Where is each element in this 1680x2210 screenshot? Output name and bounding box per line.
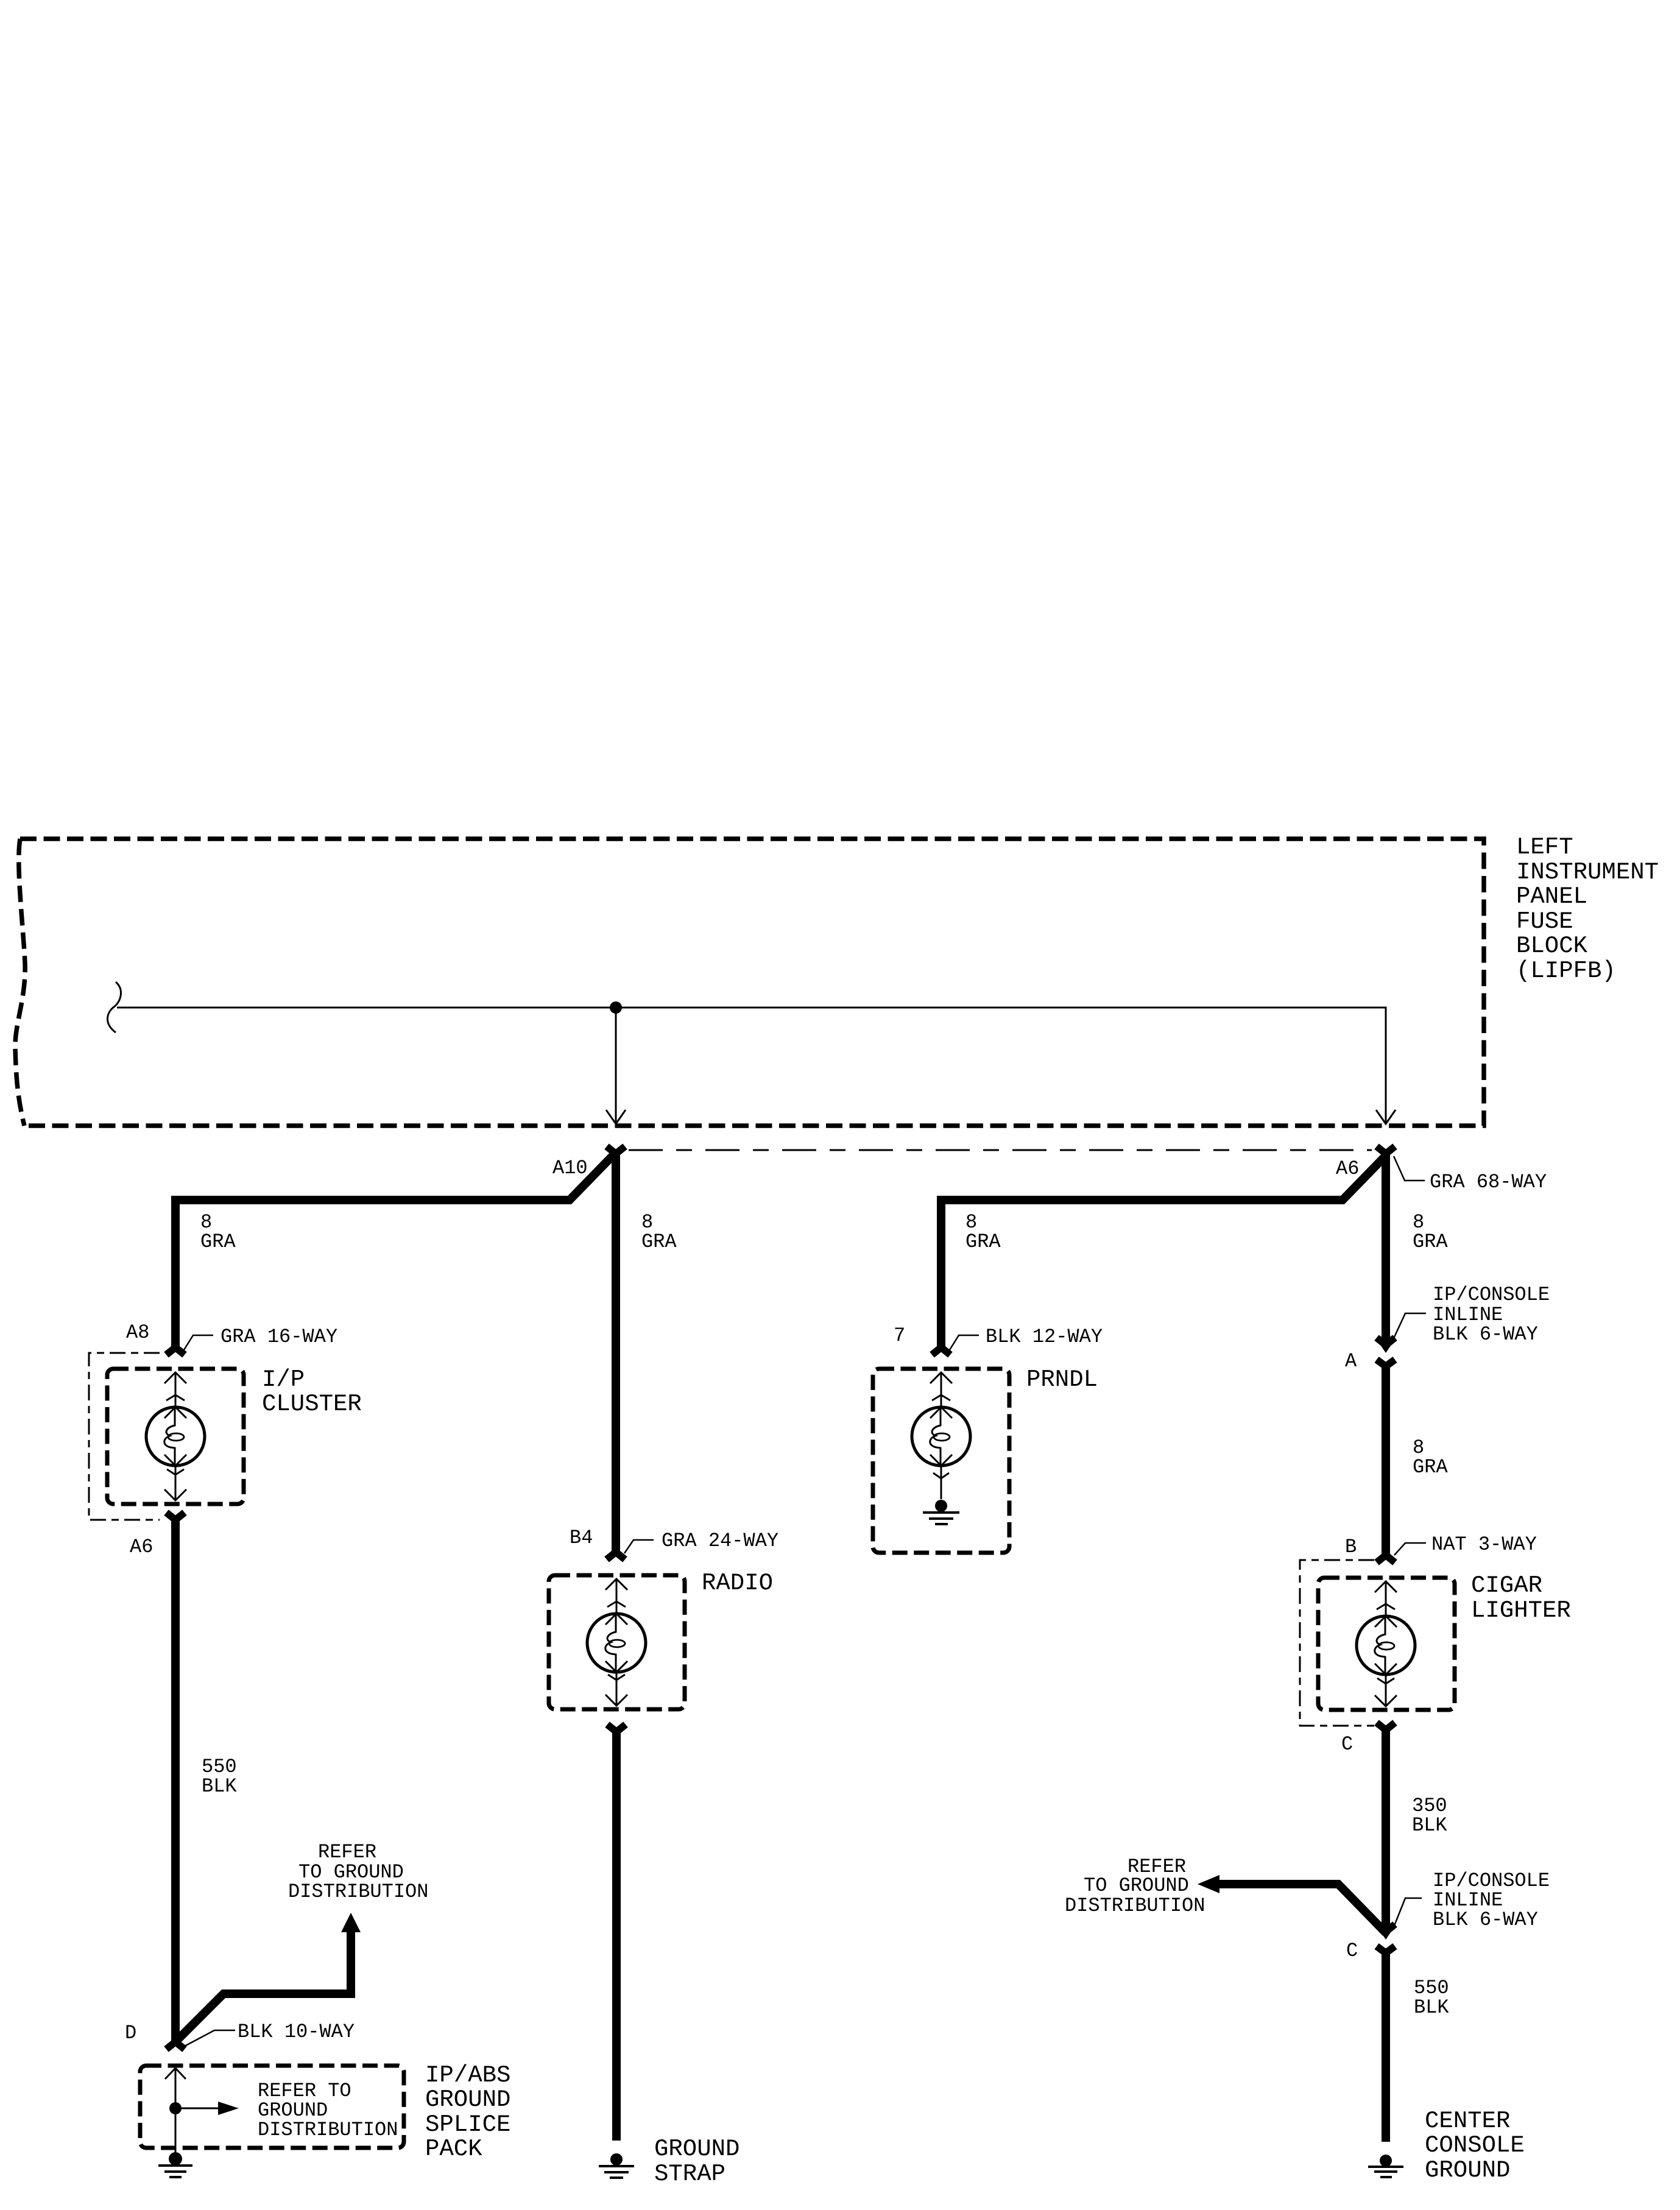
svg-text:REFER: REFER xyxy=(318,1841,376,1863)
label 8 GRA (A6) xyxy=(1413,1211,1448,1253)
svg-text:GRA 68-WAY: GRA 68-WAY xyxy=(1430,1171,1547,1193)
solid arrowhead up (left branch) xyxy=(341,1913,361,1932)
svg-text:PRNDL: PRNDL xyxy=(1026,1366,1098,1393)
leader B4 xyxy=(624,1540,654,1553)
svg-text:GRA 24-WAY: GRA 24-WAY xyxy=(662,1530,778,1552)
ground symbol CENTER CONSOLE GROUND xyxy=(1368,2155,1403,2177)
label GROUND STRAP xyxy=(654,2136,739,2187)
svg-text:IP/CONSOLE: IP/CONSOLE xyxy=(1433,1283,1550,1306)
wire radio to ground strap xyxy=(612,1731,621,2141)
svg-text:BLK 10-WAY: BLK 10-WAY xyxy=(238,2021,355,2043)
svg-text:GRA: GRA xyxy=(200,1230,236,1253)
svg-text:B4: B4 xyxy=(570,1527,593,1549)
lamp PRNDL with internal ground xyxy=(912,1372,970,1524)
leader A8 xyxy=(184,1335,213,1350)
component box RADIO xyxy=(549,1575,685,1709)
wire 8 GRA segment A to B xyxy=(1382,1366,1390,1555)
label 350 BLK xyxy=(1412,1795,1447,1837)
connector flare cigar bottom xyxy=(1377,1723,1395,1730)
svg-text:PACK: PACK xyxy=(425,2136,482,2162)
leader inline connector A xyxy=(1394,1313,1426,1338)
connector flare radio bottom xyxy=(607,1725,626,1732)
ground symbol GROUND STRAP xyxy=(599,2153,634,2178)
wire branch to ground distribution (left) xyxy=(175,1931,351,2042)
svg-text:A10: A10 xyxy=(552,1157,588,1179)
svg-text:B: B xyxy=(1345,1536,1357,1558)
svg-text:A8: A8 xyxy=(126,1321,149,1344)
svg-text:D: D xyxy=(125,2022,136,2044)
svg-text:CIGAR: CIGAR xyxy=(1471,1572,1542,1599)
leader 7 xyxy=(950,1335,979,1350)
splice pack internal arrow and line xyxy=(165,2068,239,2153)
connector flare A10 xyxy=(607,1146,625,1154)
label 8 GRA (I/P branch) xyxy=(200,1211,236,1253)
svg-text:GRA: GRA xyxy=(1413,1456,1448,1478)
wire 8 GRA to PRNDL xyxy=(941,1155,1386,1349)
label 550 BLK (right) xyxy=(1414,1977,1449,2019)
lamp radio xyxy=(587,1579,646,1706)
solid arrowhead inline connector C xyxy=(1377,1924,1395,1932)
label IP/CONSOLE INLINE BLK 6-WAY (upper) xyxy=(1433,1283,1550,1346)
svg-text:BLK 6-WAY: BLK 6-WAY xyxy=(1433,1908,1538,1931)
connector flare B4 xyxy=(607,1552,625,1559)
svg-text:(LIPFB): (LIPFB) xyxy=(1516,958,1616,984)
label IP/ABS GROUND SPLICE PACK xyxy=(425,2062,510,2162)
svg-text:SPLICE: SPLICE xyxy=(425,2111,510,2138)
wire 8 GRA from A10 to I/P cluster xyxy=(175,1154,614,1349)
connector flare B xyxy=(1377,1555,1395,1562)
svg-text:NAT 3-WAY: NAT 3-WAY xyxy=(1431,1533,1537,1556)
svg-text:GROUND: GROUND xyxy=(1425,2157,1510,2184)
svg-text:LEFT: LEFT xyxy=(1516,834,1573,861)
component box PRNDL xyxy=(873,1369,1009,1553)
svg-text:GRA 16-WAY: GRA 16-WAY xyxy=(221,1326,337,1348)
solid arrowhead left (right branch) xyxy=(1198,1875,1219,1893)
component box IP/ABS GROUND SPLICE PACK xyxy=(140,2066,404,2148)
svg-text:7: 7 xyxy=(894,1324,905,1347)
label 8 GRA (A-B) xyxy=(1413,1436,1448,1478)
leader D xyxy=(185,2030,235,2046)
leader inline connector C xyxy=(1393,1898,1422,1929)
svg-text:CENTER: CENTER xyxy=(1425,2108,1510,2134)
wire tap drop to A10 xyxy=(615,1008,617,1123)
leader NAT 3-WAY xyxy=(1394,1543,1426,1555)
wire 550 BLK from I/P cluster xyxy=(171,1519,180,2042)
svg-text:C: C xyxy=(1346,1940,1358,1962)
label REFER TO GROUND DISTRIBUTION (in splice box) xyxy=(258,2080,398,2141)
component box CIGAR LIGHTER xyxy=(1318,1578,1455,1710)
svg-text:A6: A6 xyxy=(1336,1157,1359,1180)
svg-text:A6: A6 xyxy=(130,1536,153,1558)
svg-text:DISTRIBUTION: DISTRIBUTION xyxy=(258,2119,398,2141)
label IP/CONSOLE INLINE BLK 6-WAY (lower) xyxy=(1433,1869,1550,1931)
svg-text:CLUSTER: CLUSTER xyxy=(262,1391,362,1417)
connector flare D xyxy=(166,2042,185,2049)
svg-text:PANEL: PANEL xyxy=(1516,883,1587,910)
svg-text:GRA: GRA xyxy=(1413,1230,1448,1253)
svg-text:C: C xyxy=(1341,1733,1353,1756)
label 550 BLK (left) xyxy=(202,1756,237,1798)
svg-text:BLK 6-WAY: BLK 6-WAY xyxy=(1433,1323,1538,1346)
svg-text:DISTRIBUTION: DISTRIBUTION xyxy=(288,1880,428,1903)
bus wire inside LIPFB xyxy=(117,1008,1386,1123)
svg-text:BLK: BLK xyxy=(202,1775,237,1798)
svg-text:BLK 12-WAY: BLK 12-WAY xyxy=(986,1326,1103,1348)
solid arrowhead inline connector A xyxy=(1377,1338,1395,1345)
connector flare A8 xyxy=(166,1347,185,1355)
label CIGAR LIGHTER xyxy=(1471,1572,1571,1624)
svg-text:GRA: GRA xyxy=(641,1230,677,1253)
label 8 GRA (PRNDL branch) xyxy=(965,1211,1001,1253)
svg-text:IP/ABS: IP/ABS xyxy=(425,2062,510,2089)
svg-text:RADIO: RADIO xyxy=(702,1570,773,1597)
label 8 GRA (radio branch) xyxy=(641,1211,677,1253)
label LEFT INSTRUMENT PANEL FUSE BLOCK (LIPFB) xyxy=(1516,834,1659,984)
svg-text:GROUND: GROUND xyxy=(654,2136,739,2162)
svg-text:STRAP: STRAP xyxy=(654,2161,725,2187)
leader GRA 68-WAY xyxy=(1394,1156,1425,1181)
svg-text:TO GROUND: TO GROUND xyxy=(1084,1874,1189,1897)
lamp cigar lighter xyxy=(1357,1581,1415,1706)
phantom connector bracket I/P cluster xyxy=(89,1353,160,1520)
fuse block LIPFB dashed outline xyxy=(15,839,1484,1126)
connector flare A6 at I/P bottom xyxy=(166,1513,185,1520)
svg-text:I/P: I/P xyxy=(262,1366,305,1393)
arrowhead at A10 xyxy=(606,1110,626,1124)
wire 8 GRA from A6 xyxy=(1382,1152,1390,1341)
lamp I/P cluster xyxy=(146,1372,205,1500)
svg-text:GROUND: GROUND xyxy=(425,2086,510,2113)
connector flare A6 at LIPFB right xyxy=(1377,1146,1395,1154)
phantom connector bracket cigar lighter xyxy=(1300,1560,1374,1726)
break symbol at bus start xyxy=(108,982,121,1033)
wire 8 GRA A10 down to radio xyxy=(612,1152,620,1554)
svg-text:FUSE: FUSE xyxy=(1516,908,1573,935)
svg-text:A: A xyxy=(1345,1350,1357,1372)
connector flare below C xyxy=(1377,1946,1395,1953)
label CENTER CONSOLE GROUND xyxy=(1425,2108,1525,2184)
wire branch to ground distribution (right) xyxy=(1218,1884,1386,1933)
svg-text:BLOCK: BLOCK xyxy=(1516,933,1588,959)
svg-text:LIGHTER: LIGHTER xyxy=(1471,1597,1571,1624)
junction dot on bus xyxy=(610,1001,622,1014)
connector face dash line under LIPFB xyxy=(629,1149,1372,1151)
component box I/P CLUSTER xyxy=(107,1369,244,1504)
wire 550 BLK (right) xyxy=(1382,1952,1390,2142)
label REFER TO GROUND DISTRIBUTION (left) xyxy=(288,1841,428,1903)
connector flare below A xyxy=(1377,1360,1395,1366)
arrowhead at A6 xyxy=(1376,1110,1396,1124)
svg-text:INSTRUMENT: INSTRUMENT xyxy=(1516,859,1659,886)
svg-text:DISTRIBUTION: DISTRIBUTION xyxy=(1065,1894,1205,1917)
wire 350 BLK xyxy=(1382,1729,1390,1928)
ground symbol IP/ABS xyxy=(158,2152,192,2177)
svg-text:CONSOLE: CONSOLE xyxy=(1425,2132,1525,2159)
connector flare 7 xyxy=(932,1347,950,1355)
svg-text:BLK: BLK xyxy=(1412,1814,1447,1837)
svg-text:GRA: GRA xyxy=(965,1230,1001,1253)
svg-text:BLK: BLK xyxy=(1414,1996,1449,2019)
label REFER TO GROUND DISTRIBUTION (right) xyxy=(1065,1855,1205,1917)
label I/P CLUSTER xyxy=(262,1366,362,1417)
